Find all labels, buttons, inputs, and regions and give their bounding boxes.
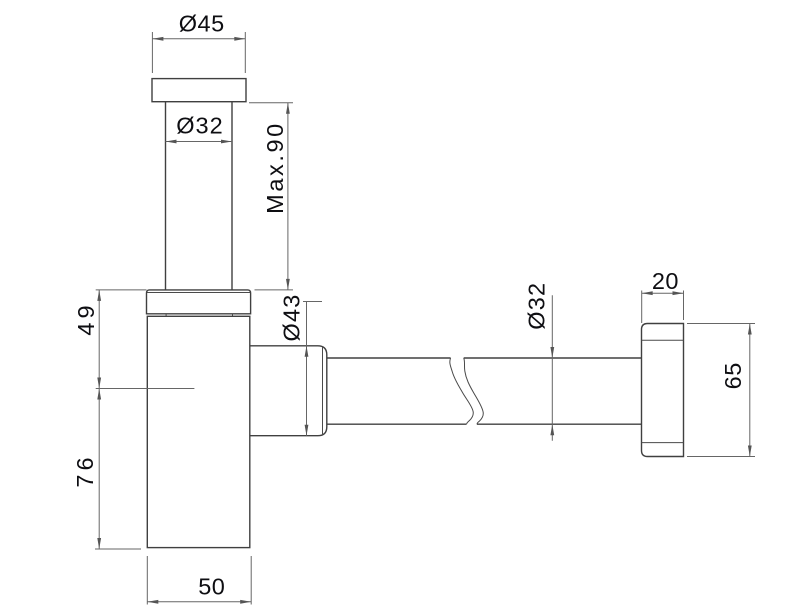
dim Max.90 arrow bottom (286, 279, 290, 290)
wall flange (642, 324, 684, 457)
outlet pipe bottom wall (left of break) (327, 423, 467, 425)
svg-text:Ø43: Ø43 (279, 293, 305, 341)
dim 49 arrow bottom (97, 378, 101, 389)
outlet pipe bottom wall (right of break) (477, 423, 642, 425)
dim Max.90 extension top (249, 102, 293, 104)
dim 50 arrow left (147, 600, 158, 604)
body cap ring chamfer line (147, 292, 250, 294)
dim 65 extension bottom (687, 456, 755, 458)
dim 20 arrow left (642, 291, 653, 295)
dim 65 arrow top (748, 324, 752, 335)
dim 50 arrow right (240, 600, 251, 604)
dim O32 top arrow left (166, 140, 177, 144)
dim 50 line (147, 601, 251, 603)
dim O43 leader tick (303, 301, 322, 303)
svg-text:20: 20 (652, 268, 679, 294)
dim 76 arrow bottom (97, 538, 101, 549)
dim 20 arrow right (673, 291, 684, 295)
dim O43 line (306, 302, 308, 436)
svg-text:Ø32: Ø32 (176, 113, 223, 139)
dim 65 line (749, 324, 751, 457)
svg-text:76: 76 (72, 453, 98, 487)
dim O32 top line (166, 141, 233, 143)
wall flange inner line bottom (642, 442, 684, 444)
dim O32 right arrow bottom (550, 424, 554, 435)
svg-text:Ø45: Ø45 (179, 11, 225, 37)
dim 20 extension left (641, 291, 643, 324)
wall flange inner line top (642, 339, 684, 341)
svg-text:Ø32: Ø32 (524, 282, 550, 330)
ring-body joint tick right (232, 314, 234, 317)
dim 49 arrow top (97, 290, 101, 301)
pipe break line right (464, 358, 484, 424)
outlet connector nut (250, 346, 327, 436)
outlet pipe top wall (left of break) (327, 357, 451, 359)
inlet tube right wall (231, 102, 233, 290)
dim 49-76 extension ring top (96, 289, 147, 291)
dim 65 arrow bottom (748, 446, 752, 457)
dim 76 extension bottom (95, 548, 141, 550)
dim Max.90 extension bottom (255, 289, 294, 291)
outlet pipe top wall (right of break) (464, 357, 642, 359)
dim O32 right arrow top (550, 347, 554, 358)
water level reference line (96, 388, 195, 390)
dim 65 extension top (687, 323, 755, 325)
svg-text:65: 65 (720, 362, 746, 389)
pipe break line left (450, 358, 473, 424)
dim 20 extension right (683, 291, 685, 321)
body cap ring (147, 290, 251, 314)
dim O45 arrow left (152, 37, 163, 41)
dim 76 arrow top (97, 389, 101, 400)
dim O43 arrow top (305, 346, 309, 357)
svg-text:Max.90: Max.90 (262, 121, 288, 214)
dim O32 right line (551, 295, 553, 440)
dim O45 arrow right (234, 37, 245, 41)
dim 50 extension left (146, 556, 148, 605)
dim 50 extension right (250, 556, 252, 605)
dim Max.90 arrow top (286, 103, 290, 114)
dim O43 arrow bottom (305, 425, 309, 436)
dim 20 line (642, 292, 684, 294)
tailpiece top flange (152, 79, 246, 102)
svg-text:50: 50 (198, 574, 225, 600)
dim O45 line (152, 38, 245, 40)
dim Max.90 line (287, 103, 289, 290)
dim O45 extension left (151, 32, 153, 73)
inlet tube left wall (165, 102, 167, 290)
svg-text:49: 49 (73, 301, 99, 335)
ring-body joint tick left (165, 314, 167, 317)
dim 49-76 line (98, 290, 100, 549)
dim O45 extension right (244, 32, 246, 73)
outlet connector end cap line (322, 346, 324, 435)
dim O32 top arrow right (221, 140, 232, 144)
trap body (147, 316, 250, 547)
